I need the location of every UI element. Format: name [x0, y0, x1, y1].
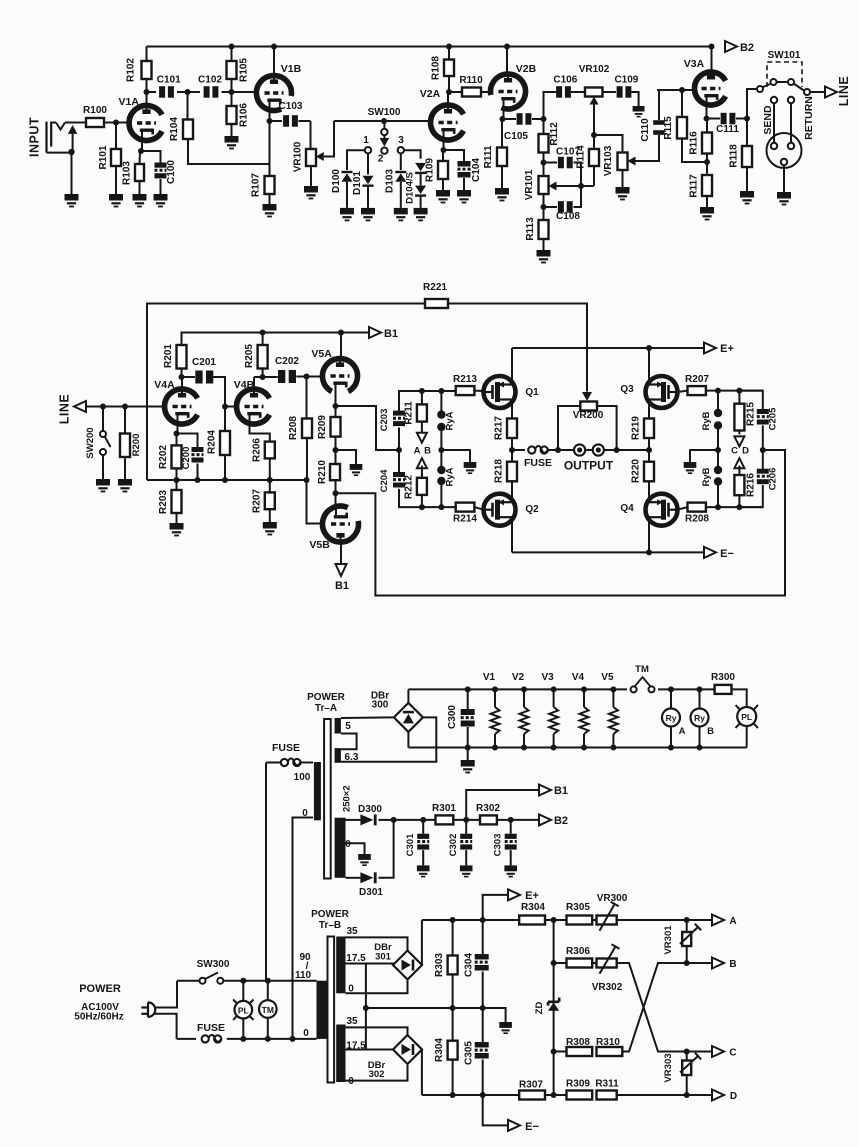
- relay contact RyA upper: [440, 391, 442, 411]
- svg-text:R307: R307: [519, 1080, 543, 1091]
- svg-text:R115: R115: [663, 116, 674, 140]
- resistor R105: [227, 61, 237, 79]
- triode V1B: [256, 76, 291, 111]
- resistor R210: [335, 450, 337, 464]
- arrow E+: [704, 343, 716, 354]
- pot VR102: [585, 88, 603, 97]
- node AB mid: [396, 447, 402, 453]
- wire 35u to DBr301: [346, 937, 408, 951]
- resistor R310: [597, 1047, 623, 1056]
- svg-text:V5B: V5B: [309, 539, 330, 551]
- svg-text:35: 35: [346, 1016, 358, 1027]
- relay coil Ry A: [662, 709, 680, 727]
- node V1B cathode: [267, 118, 273, 124]
- relay contact RyB lower: [717, 450, 719, 467]
- wire R107 drop: [269, 121, 271, 176]
- node input sleeve: [68, 149, 74, 155]
- svg-text:VR200: VR200: [573, 410, 604, 421]
- resistor R211: [421, 391, 423, 404]
- capacitor C103: [270, 120, 283, 122]
- svg-text:C201: C201: [192, 357, 216, 368]
- heater V1: [492, 686, 498, 692]
- resistor R108: [444, 60, 454, 77]
- node B row: [551, 960, 557, 966]
- connector DIN: [767, 133, 802, 168]
- svg-text:R301: R301: [432, 803, 456, 814]
- svg-text:R202: R202: [158, 445, 169, 469]
- wire bridge minus: [407, 732, 409, 748]
- svg-text:R101: R101: [98, 145, 109, 169]
- pot VR300: [592, 919, 596, 921]
- resistor R109: [438, 161, 448, 179]
- mosfet Q2: [484, 494, 516, 526]
- svg-text:VR302: VR302: [592, 982, 623, 993]
- arrow E- supply: [508, 1120, 520, 1131]
- ground center: [499, 1022, 512, 1028]
- arrow B2 supply: [539, 814, 551, 825]
- capacitor C110: [653, 120, 665, 125]
- svg-text:R212: R212: [404, 475, 415, 499]
- svg-text:OUTPUT: OUTPUT: [564, 459, 614, 473]
- node R202 bottom: [174, 477, 180, 483]
- svg-text:B: B: [707, 726, 714, 737]
- heater V4: [581, 686, 587, 692]
- wire V2B plate: [506, 47, 508, 75]
- wire RyB ground stub: [690, 450, 718, 462]
- svg-text:C304: C304: [464, 953, 475, 977]
- wire HV center tap: [346, 843, 365, 854]
- capacitor C304: [480, 917, 486, 923]
- svg-text:B: B: [424, 446, 431, 457]
- arrow C: [712, 1046, 724, 1057]
- node Ry B tap: [697, 686, 703, 692]
- ground SW200: [96, 479, 110, 486]
- svg-text:POWER: POWER: [307, 692, 346, 703]
- diode D103: [395, 173, 406, 181]
- svg-text:R216: R216: [746, 473, 757, 497]
- svg-text:R208: R208: [685, 514, 709, 525]
- node V3A grid: [679, 87, 685, 93]
- arrow D: [734, 458, 744, 468]
- ground R107: [263, 204, 277, 211]
- wire 35l to DBr302: [346, 1027, 408, 1036]
- node C101-C102: [185, 89, 191, 95]
- node E-: [646, 549, 652, 555]
- wire C row right: [687, 1051, 713, 1053]
- diode D104/S a: [415, 163, 426, 171]
- svg-text:RyA: RyA: [445, 467, 456, 486]
- wire R101 drop: [115, 123, 117, 150]
- ground C100: [154, 194, 168, 201]
- svg-text:17.5: 17.5: [346, 953, 366, 964]
- node R105 bottom: [229, 89, 235, 95]
- node V5A cathode: [333, 403, 339, 409]
- svg-text:R205: R205: [244, 344, 255, 368]
- wire E+ rail: [512, 347, 705, 349]
- fuse FUSE: [512, 449, 525, 451]
- resistor R103: [139, 151, 142, 164]
- wire Q3 source: [648, 400, 650, 411]
- wire 17.5u common: [346, 963, 394, 965]
- diode D104/S b: [415, 186, 426, 194]
- resistor R111: [501, 119, 503, 148]
- wire Q3 drain: [648, 348, 650, 385]
- svg-text:R203: R203: [158, 490, 169, 514]
- switch SW101 blade right: [794, 84, 805, 91]
- svg-text:D101: D101: [352, 171, 363, 195]
- node B1-V5A: [338, 330, 344, 336]
- wire V1A cathode: [141, 138, 143, 151]
- pot VR303: [686, 1052, 688, 1061]
- svg-text:300: 300: [372, 700, 389, 711]
- svg-text:R217: R217: [494, 416, 505, 440]
- resistor R104: [183, 120, 193, 140]
- diode D100: [342, 173, 353, 181]
- diode D101: [363, 176, 374, 184]
- wire 5V to bridge: [341, 716, 394, 719]
- svg-text:R303: R303: [434, 953, 445, 977]
- svg-text:C103: C103: [279, 101, 303, 112]
- arrow E-: [704, 547, 716, 558]
- ground D103: [394, 208, 408, 215]
- svg-text:TM: TM: [635, 664, 649, 675]
- svg-text:E−: E−: [720, 548, 734, 560]
- capacitor C106: [556, 86, 562, 98]
- wire pole3 to D104: [404, 150, 421, 159]
- svg-text:D103: D103: [385, 169, 396, 193]
- wire C103 to VR100: [310, 121, 312, 149]
- ground R103: [133, 194, 147, 201]
- ground R106: [225, 136, 239, 143]
- svg-text:VR300: VR300: [597, 893, 628, 904]
- switch SW101 blade left: [762, 84, 770, 88]
- svg-text:V1: V1: [483, 672, 496, 683]
- wire VR200 right: [597, 406, 617, 450]
- ground R111: [495, 188, 509, 195]
- node VR102 junction: [591, 132, 597, 138]
- svg-text:R104: R104: [169, 117, 180, 141]
- capacitor C105: [503, 118, 517, 120]
- capacitor C109: [603, 91, 617, 93]
- capacitor C102: [204, 86, 210, 98]
- svg-text:R304: R304: [521, 902, 545, 913]
- node C205-C206: [760, 447, 766, 453]
- node V4A plate: [179, 374, 185, 380]
- wire R104 to cathode node: [188, 139, 270, 164]
- svg-text:RyB: RyB: [701, 411, 712, 430]
- node PL tap top: [240, 978, 246, 984]
- wire Tr-A primary hot drop: [265, 763, 267, 981]
- capacitor C200: [177, 434, 198, 448]
- svg-text:301: 301: [375, 952, 392, 963]
- wire grid line V3A: [657, 89, 695, 91]
- svg-text:R310: R310: [596, 1037, 620, 1048]
- svg-text:D100: D100: [331, 169, 342, 193]
- svg-text:R208: R208: [288, 416, 299, 440]
- transformer Tr-B primary: [317, 981, 327, 1039]
- node V1A cathode: [138, 148, 144, 154]
- arrow B1 bottom: [336, 564, 347, 576]
- triode V2A: [431, 105, 464, 140]
- jack OUTPUT left: [574, 444, 585, 455]
- jack SEND pin: [771, 97, 777, 103]
- heater V3: [551, 686, 557, 692]
- wire VR200 left: [558, 406, 580, 450]
- pot VR200: [580, 402, 597, 411]
- switch SW300: [200, 978, 206, 984]
- fuse FUSE A: [266, 762, 281, 764]
- arrow E+ supply: [508, 889, 520, 900]
- wire V2A cathode: [443, 130, 445, 150]
- wire B+ rail: [394, 819, 436, 821]
- svg-text:Tr–A: Tr–A: [315, 703, 337, 714]
- svg-text:R209: R209: [317, 415, 328, 439]
- diode D300: [346, 819, 361, 821]
- bridge DBr301: [393, 951, 422, 980]
- node E- row: [551, 1092, 557, 1098]
- resistor R206: [265, 442, 275, 459]
- wire VR101 wiper: [557, 185, 595, 187]
- wire D301 up: [379, 820, 394, 878]
- wire V4B plate lead: [253, 377, 255, 389]
- svg-text:Ry: Ry: [694, 713, 705, 723]
- wire V3A plate: [711, 47, 713, 73]
- resistor R216: [734, 475, 744, 495]
- pot VR101: [543, 163, 545, 177]
- node VR303 top: [684, 1049, 690, 1055]
- svg-text:C303: C303: [493, 834, 504, 857]
- capacitor C205: [739, 391, 762, 409]
- wire E+ arrow stub: [483, 895, 509, 920]
- diode D301: [346, 877, 361, 879]
- node SW200: [100, 404, 106, 410]
- wire V3A cathode: [706, 96, 708, 119]
- wire 17.5l common: [346, 1049, 394, 1051]
- wire AC top line: [177, 980, 200, 982]
- capacitor C104: [444, 150, 465, 161]
- wire pole3 to D103: [400, 154, 402, 171]
- wire ground stub: [336, 450, 357, 464]
- svg-text:FUSE: FUSE: [272, 742, 300, 754]
- resistor R213: [456, 386, 475, 395]
- wire 6.3 to bridge: [341, 717, 436, 761]
- node rail-V1B: [271, 44, 277, 50]
- capacitor C303: [510, 820, 512, 834]
- resistor R102: [142, 61, 152, 79]
- ground R117: [700, 207, 714, 214]
- wire V1B cathode: [269, 101, 271, 122]
- node VR303 bottom: [684, 1092, 690, 1098]
- ground C104: [457, 190, 471, 197]
- svg-text:A: A: [729, 916, 736, 927]
- svg-text:C300: C300: [447, 705, 458, 729]
- ground R113: [537, 250, 551, 257]
- node B1-R205: [260, 330, 266, 336]
- svg-text:R103: R103: [122, 161, 133, 185]
- wire Q1 source: [511, 400, 513, 419]
- svg-text:C108: C108: [556, 211, 580, 222]
- ground C300: [461, 760, 475, 767]
- resistor R100: [86, 118, 104, 127]
- ground R109: [436, 190, 450, 197]
- wire V5B cathode line: [336, 450, 786, 596]
- wire DBr302 minus drop: [421, 1050, 423, 1096]
- resistor R200: [124, 407, 126, 434]
- wire V5A cathode: [335, 394, 337, 406]
- pot VR302: [592, 962, 596, 964]
- wire V5A cathode to C203: [336, 406, 399, 450]
- pot VR100: [306, 149, 316, 166]
- wire R115 to R116 bottom: [682, 139, 707, 163]
- node PL tap bottom: [240, 1036, 246, 1042]
- svg-text:R214: R214: [453, 514, 477, 525]
- ground R118: [740, 191, 754, 198]
- node VR101 bottom: [541, 204, 547, 210]
- wire to V5B grid: [307, 480, 323, 524]
- arrow VR200 wiper: [582, 392, 592, 401]
- transformer Tr-A 6.3V winding: [335, 748, 341, 763]
- wire AC bottom cont: [227, 1038, 317, 1040]
- svg-text:VR303: VR303: [663, 1053, 674, 1082]
- svg-text:V2B: V2B: [516, 63, 537, 75]
- resistor R219: [648, 410, 650, 419]
- wire E- rail: [512, 551, 705, 553]
- ground input: [65, 194, 79, 201]
- wire C203-C204 mid: [398, 428, 400, 473]
- resistor R307: [519, 1091, 545, 1100]
- capacitor C108: [543, 194, 545, 207]
- switch SW101 send contact: [757, 86, 763, 92]
- node grid V1A: [113, 120, 119, 126]
- wire heater rail top: [408, 688, 627, 690]
- heater V5: [610, 686, 616, 692]
- resistor R205: [258, 345, 268, 369]
- triode V2B: [491, 74, 526, 109]
- node VR301 bottom: [684, 960, 690, 966]
- svg-text:R110: R110: [459, 75, 483, 86]
- node right output: [646, 447, 652, 453]
- plug symbol: [148, 1002, 155, 1017]
- svg-text:C206: C206: [768, 468, 779, 491]
- node VR101 top: [541, 160, 547, 166]
- switch SW100 pole 2: [381, 148, 387, 154]
- svg-text:R213: R213: [453, 374, 477, 385]
- switch SW100 pole 3: [398, 147, 404, 153]
- svg-text:SW300: SW300: [197, 959, 230, 970]
- svg-text:RyA: RyA: [445, 411, 456, 430]
- svg-text:E+: E+: [525, 890, 539, 902]
- wire R300 to PL: [732, 689, 747, 707]
- svg-text:D104/S: D104/S: [405, 172, 416, 204]
- svg-text:V4A: V4A: [154, 379, 175, 391]
- node V2A cathode: [441, 147, 447, 153]
- wire R208 to RyB: [706, 506, 763, 508]
- resistor R300: [715, 685, 732, 694]
- resistor R112: [539, 134, 549, 153]
- lamp PL bottom: [242, 981, 244, 1002]
- arrow LINE: [825, 87, 837, 98]
- wire Q4 drain: [648, 494, 650, 502]
- svg-text:V5: V5: [601, 672, 614, 683]
- svg-text:0: 0: [303, 1028, 309, 1039]
- wire V5B plate lead: [340, 542, 342, 564]
- svg-text:V1B: V1B: [281, 63, 302, 75]
- svg-text:FUSE: FUSE: [197, 1022, 225, 1034]
- svg-text:C105: C105: [504, 131, 528, 142]
- capacitor C111: [707, 118, 721, 120]
- svg-text:Q4: Q4: [620, 503, 634, 514]
- lamp PL top: [737, 707, 756, 726]
- svg-text:C106: C106: [553, 75, 577, 86]
- wire 5-6.3 series link: [341, 734, 357, 750]
- svg-text:C109: C109: [614, 75, 638, 86]
- ground R101: [109, 194, 123, 201]
- node RyB top: [715, 388, 721, 394]
- switch SW200: [102, 407, 104, 432]
- resistor R208 right: [688, 503, 706, 512]
- capacitor C100: [141, 151, 161, 163]
- capacitor C202: [254, 376, 278, 378]
- svg-text:V3: V3: [541, 672, 554, 683]
- arrow A: [712, 915, 724, 926]
- wire Q2 drain: [511, 481, 513, 502]
- svg-text:C: C: [729, 1048, 736, 1059]
- svg-text:R306: R306: [566, 946, 590, 957]
- wire R221 feedback line: [147, 304, 425, 481]
- wire V5A plate lead: [340, 333, 342, 358]
- svg-text:35: 35: [346, 926, 358, 937]
- svg-text:R102: R102: [126, 58, 137, 82]
- arrow B: [712, 958, 724, 969]
- svg-text:D: D: [730, 1091, 737, 1102]
- arrow LINE in: [74, 401, 86, 412]
- node E+: [646, 345, 652, 351]
- relay coil Ry B: [691, 709, 709, 727]
- svg-text:B2: B2: [740, 42, 754, 54]
- wire RyA ground stub: [441, 450, 470, 462]
- svg-text:110: 110: [295, 970, 312, 981]
- wire heater rail bottom: [408, 747, 746, 749]
- wire R207 to RyB: [706, 390, 763, 392]
- svg-text:PL: PL: [741, 712, 752, 722]
- node RyB mid: [715, 447, 721, 453]
- node R209-R210: [333, 447, 339, 453]
- svg-text:V4B: V4B: [234, 379, 255, 391]
- node VR301 top: [684, 917, 690, 923]
- svg-text:POWER: POWER: [311, 909, 350, 920]
- ground HV tap: [358, 854, 371, 860]
- fuse FUSE B: [202, 1035, 209, 1042]
- switch SW100 pole 1: [365, 147, 371, 153]
- node V2A plate: [446, 89, 452, 95]
- resistor R207 mid: [269, 480, 271, 492]
- svg-text:R118: R118: [729, 144, 740, 168]
- svg-text:R109: R109: [425, 158, 436, 182]
- svg-text:50Hz/60Hz: 50Hz/60Hz: [74, 1012, 123, 1023]
- node fuse right: [555, 447, 561, 453]
- node R204 bottom: [222, 477, 228, 483]
- node TM tap bottom: [265, 1036, 271, 1042]
- resistor R101: [111, 149, 121, 166]
- wire AC top cont: [223, 980, 316, 982]
- node SW100: [381, 118, 387, 124]
- node D300 out: [391, 817, 397, 823]
- wire V4B cathode: [250, 424, 270, 442]
- svg-text:R114: R114: [576, 145, 587, 169]
- wire C105 up to C106: [544, 92, 557, 119]
- wire plug live: [155, 981, 178, 1008]
- arrow C: [738, 431, 740, 435]
